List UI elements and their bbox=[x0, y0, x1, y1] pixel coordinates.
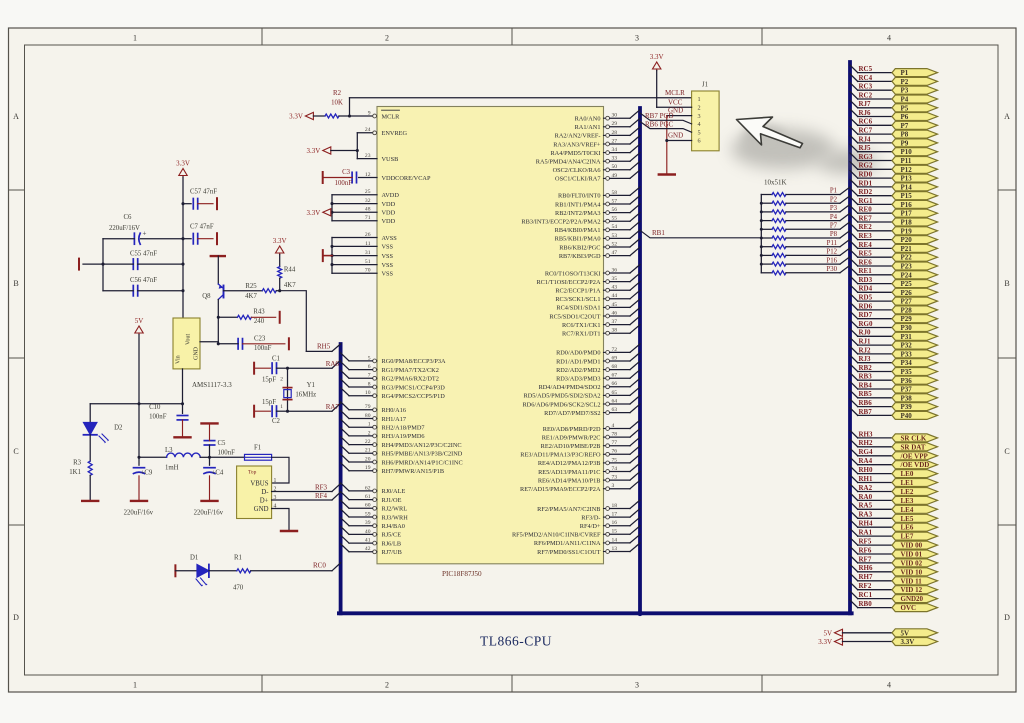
wire net RB1 bbox=[640, 230, 761, 238]
ground bar R3 bbox=[82, 500, 98, 502]
svg-text:5V: 5V bbox=[135, 317, 144, 325]
svg-text:VUSB: VUSB bbox=[382, 156, 399, 163]
port P6 (net RJ6) bbox=[850, 109, 938, 121]
pin 14 RF6/PMD1/AN11/C1INA bbox=[534, 534, 640, 547]
svg-text:RH2/A18/PMD7: RH2/A18/PMD7 bbox=[382, 425, 425, 432]
pin 75 RE4/AD12/PMA12/P3B bbox=[538, 454, 640, 467]
svg-text:P2: P2 bbox=[830, 196, 838, 203]
pin 28 RA2/AN2/VREF- bbox=[555, 127, 640, 140]
junction rail C56 bbox=[181, 289, 184, 292]
svg-text:P14: P14 bbox=[901, 183, 913, 191]
svg-text:3.3V: 3.3V bbox=[273, 237, 287, 245]
capacitor C1 bbox=[271, 363, 273, 373]
port LE6 (net RH4) bbox=[850, 520, 938, 532]
svg-text:RH6: RH6 bbox=[859, 564, 874, 572]
svg-text:RG1: RG1 bbox=[859, 197, 874, 205]
terminator C23 bbox=[288, 338, 290, 349]
junction left rail C55 bbox=[101, 263, 104, 266]
wire VDD pin stub y=212.3 bbox=[332, 211, 377, 213]
pin 32 VDD bbox=[365, 198, 396, 208]
pin 47 RB7/KBI3/PGD bbox=[559, 247, 640, 260]
ground bar C9 bbox=[131, 500, 147, 502]
svg-text:VSS: VSS bbox=[382, 244, 394, 251]
port LE0 (net RH0) bbox=[850, 466, 938, 478]
svg-text:RC6/TX1/CK1: RC6/TX1/CK1 bbox=[562, 322, 601, 329]
svg-text:RD4/AD4/PMD4/SDO2: RD4/AD4/PMD4/SDO2 bbox=[539, 384, 601, 391]
svg-text:P30: P30 bbox=[826, 266, 837, 273]
svg-text:D: D bbox=[13, 613, 19, 622]
pin 60 RJ2/WRL bbox=[341, 500, 408, 512]
resistor RN P3 bbox=[761, 204, 850, 214]
svg-text:3.3V: 3.3V bbox=[306, 209, 320, 217]
svg-text:RH0: RH0 bbox=[859, 466, 874, 474]
junction rail C55 bbox=[181, 263, 184, 266]
port P21 (net RE4) bbox=[850, 241, 938, 253]
wire Q8 emitter down bbox=[217, 300, 219, 344]
wire J1 pin3 GND bbox=[667, 115, 692, 117]
pin 63 RD7/AD7/PMD7/SS2 bbox=[544, 404, 640, 417]
wire VDD pin stub y=203.6 bbox=[332, 203, 377, 205]
pin 18 RF2/PMA5/AN7/C2INB bbox=[537, 500, 640, 513]
svg-text:2: 2 bbox=[280, 377, 283, 383]
svg-text:LE2: LE2 bbox=[901, 488, 914, 496]
pin 19 RH7/PMWR/AN15/P1B bbox=[341, 463, 445, 475]
resistor R1 bbox=[237, 569, 251, 573]
svg-text:37: 37 bbox=[612, 319, 618, 325]
svg-text:27: 27 bbox=[612, 138, 618, 144]
svg-text:RB2: RB2 bbox=[859, 364, 873, 372]
port LE2 (net RA2) bbox=[850, 484, 938, 496]
svg-text:58: 58 bbox=[612, 190, 618, 196]
svg-text:4: 4 bbox=[612, 423, 615, 429]
port P5 (net RJ7) bbox=[850, 100, 938, 112]
svg-text:54: 54 bbox=[612, 224, 618, 230]
svg-text:50: 50 bbox=[612, 164, 618, 170]
svg-text:RJ6/LB: RJ6/LB bbox=[382, 540, 402, 547]
svg-text:P35: P35 bbox=[901, 368, 913, 376]
svg-text:10K: 10K bbox=[331, 100, 343, 107]
pin 17 RF3/D- bbox=[581, 509, 640, 522]
svg-text:P34: P34 bbox=[901, 359, 913, 367]
capacitor C2 bbox=[271, 406, 273, 416]
resistor R2 bbox=[325, 114, 339, 118]
resistor RN P7 bbox=[761, 222, 850, 232]
svg-text:RF3/D-: RF3/D- bbox=[581, 514, 600, 521]
svg-text:TL866-CPU: TL866-CPU bbox=[480, 634, 552, 649]
svg-text:P1: P1 bbox=[901, 69, 909, 77]
port P15 (net RD2) bbox=[850, 188, 938, 200]
svg-text:220uF/16V: 220uF/16V bbox=[109, 225, 140, 232]
svg-text:RD0: RD0 bbox=[859, 171, 873, 179]
svg-text:RC5: RC5 bbox=[859, 65, 873, 73]
wire USB GND bbox=[272, 509, 289, 530]
svg-text:RG0/PMA8/ECCP3/P3A: RG0/PMA8/ECCP3/P3A bbox=[382, 358, 446, 365]
pin 34 RA4/PMD5/T0CKI bbox=[550, 144, 640, 157]
svg-text:R3: R3 bbox=[73, 460, 82, 467]
svg-text:P8: P8 bbox=[901, 131, 909, 139]
port 3.3V power bbox=[818, 638, 937, 647]
pin 20 RH6/PMRD/AN14/P1C/C1INC bbox=[341, 454, 463, 466]
wire Q8 collector bbox=[217, 256, 219, 284]
ground bar C5 bbox=[202, 422, 218, 424]
wire C55 right bbox=[138, 263, 183, 265]
wire net RA6 bbox=[288, 367, 333, 369]
junction RN rail P8 bbox=[760, 237, 763, 240]
svg-text:GND20: GND20 bbox=[901, 595, 924, 603]
wire net RH5 bbox=[306, 350, 332, 352]
svg-text:RB4: RB4 bbox=[859, 381, 873, 389]
port VID_00 (net RF5) bbox=[850, 538, 938, 550]
svg-text:OSC1/CLKI/RA7: OSC1/CLKI/RA7 bbox=[555, 176, 600, 183]
svg-text:3.3V: 3.3V bbox=[650, 53, 664, 61]
svg-text:LE0: LE0 bbox=[901, 470, 914, 478]
wire bus chip-right vertical bbox=[638, 108, 642, 613]
svg-text:RC6: RC6 bbox=[859, 118, 873, 126]
svg-text:P4: P4 bbox=[830, 214, 838, 221]
wire regulator Vin bbox=[182, 369, 184, 404]
svg-text:40: 40 bbox=[365, 529, 371, 535]
pin 56 RB2/INT2/PMA3 bbox=[555, 204, 640, 217]
capacitor C9 electrolytic bbox=[134, 467, 145, 469]
wire C2 left bbox=[254, 410, 270, 412]
pin 23 VUSB bbox=[365, 153, 398, 163]
wire C5 bottom bbox=[209, 445, 211, 465]
svg-text:15: 15 bbox=[612, 529, 618, 535]
svg-text:C7 47nF: C7 47nF bbox=[190, 224, 214, 231]
svg-text:RE6: RE6 bbox=[859, 258, 873, 266]
svg-text:VCC: VCC bbox=[668, 98, 683, 106]
svg-text:P9: P9 bbox=[901, 139, 909, 147]
svg-text:19: 19 bbox=[365, 465, 371, 471]
svg-text:1mH: 1mH bbox=[165, 465, 179, 472]
wire net RA7 bbox=[288, 410, 333, 412]
svg-text:4: 4 bbox=[887, 34, 891, 43]
svg-text:65: 65 bbox=[612, 390, 618, 396]
svg-text:RG1/PMA7/TX2/CK2: RG1/PMA7/TX2/CK2 bbox=[382, 367, 439, 374]
junction VSS rail bbox=[330, 245, 333, 248]
wire 5V to C9 bbox=[138, 457, 140, 465]
transistor Q8 bbox=[202, 284, 223, 300]
svg-text:RA3: RA3 bbox=[859, 511, 873, 519]
pin 73 RE6/AD14/PMA10/P1B bbox=[538, 472, 640, 485]
ground bar at VSS bbox=[322, 250, 324, 261]
port LE4 (net RA5) bbox=[850, 502, 938, 514]
pin 58 RB0/FLT0/INT0 bbox=[558, 187, 640, 200]
svg-text:RH3: RH3 bbox=[859, 430, 874, 438]
pin 41 RJ6/LB bbox=[341, 535, 402, 547]
svg-text:Vin: Vin bbox=[176, 355, 182, 364]
svg-text:RF2/PMA5/AN7/C2INB: RF2/PMA5/AN7/C2INB bbox=[537, 506, 600, 513]
wire USB D+ net RF4 bbox=[272, 499, 332, 501]
svg-text:RB7: RB7 bbox=[859, 408, 873, 416]
svg-text:P39: P39 bbox=[901, 403, 913, 411]
svg-text:1: 1 bbox=[133, 681, 137, 690]
svg-text:4: 4 bbox=[698, 121, 701, 128]
svg-text:P11: P11 bbox=[827, 240, 837, 247]
pin 52 RB6/KBI2/PGC bbox=[559, 239, 640, 252]
crystal Y1 bbox=[280, 377, 316, 411]
wire VUSB net bbox=[357, 158, 377, 160]
svg-text:RE3/AD11/PMA13/P3C/REFO: RE3/AD11/PMA13/P3C/REFO bbox=[520, 452, 601, 459]
wire C1 left bbox=[254, 367, 270, 369]
svg-text:PIC18F87J50: PIC18F87J50 bbox=[442, 570, 482, 578]
svg-text:F1: F1 bbox=[254, 445, 261, 452]
svg-text:P25: P25 bbox=[901, 280, 913, 288]
svg-text:63: 63 bbox=[612, 407, 618, 413]
svg-text:34: 34 bbox=[612, 147, 618, 153]
wire VSS pin stub y=264.6 bbox=[332, 264, 377, 266]
svg-text:3.3V: 3.3V bbox=[818, 638, 832, 646]
wire R43 left bbox=[218, 316, 237, 318]
svg-text:16MHz: 16MHz bbox=[295, 391, 316, 398]
port P40 (net RB7) bbox=[850, 408, 938, 420]
pin 70 VSS bbox=[365, 268, 394, 278]
svg-text:14: 14 bbox=[612, 537, 618, 543]
svg-text:33: 33 bbox=[612, 156, 618, 162]
svg-text:100nF: 100nF bbox=[149, 414, 167, 421]
wire net RB6 to J1 pin5 bbox=[640, 122, 692, 133]
svg-text:RA0: RA0 bbox=[859, 493, 873, 501]
pin 48 VDD bbox=[365, 207, 396, 217]
pin 46 RC5/SDO1/C2OUT bbox=[549, 308, 640, 321]
svg-text:80: 80 bbox=[365, 413, 371, 419]
svg-text:/OE VDD: /OE VDD bbox=[900, 461, 930, 469]
svg-text:RC1/T1OSI/ECCP2/P2A: RC1/T1OSI/ECCP2/P2A bbox=[536, 279, 600, 286]
svg-text:RF5/PMD2/AN10/C1INB/CVREF: RF5/PMD2/AN10/C1INB/CVREF bbox=[512, 532, 601, 539]
wire cap bank left rail bbox=[102, 239, 104, 291]
svg-text:56: 56 bbox=[612, 207, 618, 213]
port P35 (net RB2) bbox=[850, 364, 938, 376]
svg-text:43: 43 bbox=[612, 285, 618, 291]
wire C9 bottom bbox=[138, 476, 140, 500]
wire VDD rail vertical bbox=[331, 195, 333, 221]
wire ENVREG pin stub bbox=[357, 132, 372, 134]
junction J1 GND bbox=[665, 139, 668, 142]
svg-text:RH5: RH5 bbox=[317, 342, 331, 350]
ground symbol at J1 bbox=[659, 173, 675, 175]
svg-text:RB6 PGC: RB6 PGC bbox=[645, 121, 674, 129]
wire crystal vertical bbox=[287, 368, 289, 411]
svg-text:220uF/16v: 220uF/16v bbox=[194, 510, 224, 517]
svg-text:RB6/KBI2/PGC: RB6/KBI2/PGC bbox=[559, 244, 600, 251]
port GND20 (net RC1) bbox=[850, 591, 938, 603]
svg-text:D1: D1 bbox=[190, 555, 198, 562]
svg-text:RD0/AD0/PMD0: RD0/AD0/PMD0 bbox=[556, 350, 600, 357]
pin 5 RG0/PMA8/ECCP3/P3A bbox=[341, 353, 446, 365]
svg-text:A: A bbox=[13, 112, 19, 121]
svg-text:P26: P26 bbox=[901, 289, 913, 297]
wire node to F1 bbox=[210, 456, 245, 458]
svg-text:2: 2 bbox=[385, 681, 389, 690]
svg-text:LE7: LE7 bbox=[901, 533, 914, 541]
svg-text:3: 3 bbox=[635, 34, 639, 43]
svg-text:P16: P16 bbox=[826, 257, 837, 264]
wire C56 right bbox=[138, 290, 183, 292]
pin 77 RE2/AD10/PMBE/P2B bbox=[541, 437, 640, 450]
svg-text:RH6/PMRD/AN14/P1C/C1INC: RH6/PMRD/AN14/P1C/C1INC bbox=[382, 459, 463, 466]
svg-text:P28: P28 bbox=[901, 306, 913, 314]
svg-text:57: 57 bbox=[612, 198, 618, 204]
svg-text:RJ6: RJ6 bbox=[859, 109, 872, 117]
pin 74 RE5/AD13/PMA11/P1C bbox=[538, 463, 640, 476]
svg-text:RH7: RH7 bbox=[859, 573, 874, 581]
svg-text:RH7/PMWR/AN15/P1B: RH7/PMWR/AN15/P1B bbox=[382, 468, 445, 475]
wire 3.3V to J1 VCC bbox=[656, 71, 658, 108]
svg-text:VID 12: VID 12 bbox=[901, 586, 923, 594]
pin 21 RH5/PMBE/AN13/P3B/C2IND bbox=[341, 445, 463, 457]
port P39 (net RB6) bbox=[850, 399, 938, 411]
svg-text:P20: P20 bbox=[901, 236, 913, 244]
pin 24 ENVREG bbox=[365, 127, 408, 137]
wire Vout to node bbox=[200, 341, 218, 343]
capacitor C10 bbox=[182, 404, 184, 414]
svg-text:RJ4: RJ4 bbox=[859, 135, 872, 143]
svg-text:RE3: RE3 bbox=[859, 232, 873, 240]
resistor R44 bbox=[278, 267, 282, 279]
svg-text:VID 10: VID 10 bbox=[901, 568, 923, 576]
svg-text:RG4: RG4 bbox=[859, 448, 874, 456]
svg-text:1K1: 1K1 bbox=[69, 469, 81, 476]
pin 33 RA5/PMD4/AN4/C2INA bbox=[536, 153, 640, 166]
svg-text:RE4/AD12/PMA12/P3B: RE4/AD12/PMA12/P3B bbox=[538, 460, 601, 467]
capacitor C57 bbox=[183, 203, 191, 205]
svg-text:6: 6 bbox=[698, 138, 701, 145]
svg-text:21: 21 bbox=[365, 448, 371, 454]
svg-text:RC0: RC0 bbox=[313, 562, 326, 570]
svg-text:RJ1: RJ1 bbox=[859, 338, 872, 346]
svg-text:RE0/AD8/PMRD/P2D: RE0/AD8/PMRD/P2D bbox=[543, 426, 601, 433]
svg-text:R44: R44 bbox=[284, 267, 296, 274]
svg-text:+C9: +C9 bbox=[141, 470, 153, 477]
junction C5 node bbox=[208, 456, 211, 459]
svg-text:C10: C10 bbox=[149, 404, 161, 411]
LED D1 bbox=[190, 555, 209, 587]
svg-text:3: 3 bbox=[635, 681, 639, 690]
svg-text:73: 73 bbox=[612, 475, 618, 481]
svg-text:P7: P7 bbox=[830, 223, 838, 230]
svg-text:RD5: RD5 bbox=[859, 294, 873, 302]
pin 66 RD4/AD4/PMD4/SDO2 bbox=[539, 378, 640, 391]
svg-text:35: 35 bbox=[612, 276, 618, 282]
pin 12 VDDCORE/VCAP bbox=[365, 172, 431, 182]
svg-text:RD2: RD2 bbox=[859, 188, 873, 196]
svg-text:LE4: LE4 bbox=[901, 506, 914, 514]
pin 22 RH4/PMD3/AN12/P3C/C2INC bbox=[341, 437, 462, 449]
svg-text:LE5: LE5 bbox=[901, 515, 914, 523]
svg-text:13: 13 bbox=[612, 546, 618, 552]
svg-text:A: A bbox=[1004, 112, 1010, 121]
svg-text:RH5/PMBE/AN13/P3B/C2IND: RH5/PMBE/AN13/P3B/C2IND bbox=[382, 451, 463, 458]
junction VDD rail bbox=[330, 202, 333, 205]
pin 3 RE7/AD15/PMA9/ECCP2/P2A bbox=[520, 480, 640, 493]
wire R43 right bbox=[251, 316, 275, 318]
svg-text:OVC: OVC bbox=[901, 604, 917, 612]
terminator C7 bbox=[216, 233, 218, 244]
svg-text:D+: D+ bbox=[260, 497, 269, 504]
svg-text:RA5/PMD4/AN4/C2INA: RA5/PMD4/AN4/C2INA bbox=[536, 159, 601, 166]
svg-text:3.3V: 3.3V bbox=[306, 147, 320, 155]
wire R44 top bbox=[279, 255, 281, 267]
svg-text:P40: P40 bbox=[901, 412, 913, 420]
wire L3 to C5 node bbox=[200, 456, 209, 458]
svg-text:RE2: RE2 bbox=[859, 223, 873, 231]
svg-text:RD1: RD1 bbox=[859, 179, 873, 187]
resistor RN P11 bbox=[761, 239, 850, 249]
svg-text:RJ0/ALE: RJ0/ALE bbox=[382, 488, 406, 495]
svg-text:RF6: RF6 bbox=[859, 546, 872, 554]
svg-text:3.3V: 3.3V bbox=[901, 638, 915, 646]
svg-text:RH2: RH2 bbox=[859, 439, 874, 447]
junction C23 node bbox=[217, 342, 220, 345]
svg-text:VDDCORE/VCAP: VDDCORE/VCAP bbox=[382, 175, 431, 182]
svg-text:RD7/AD7/PMD7/SS2: RD7/AD7/PMD7/SS2 bbox=[544, 410, 600, 417]
resistor RN P30 bbox=[761, 265, 850, 275]
resistor R3 bbox=[88, 461, 92, 475]
port P26 (net RD4) bbox=[850, 285, 938, 297]
capacitor C5 bbox=[204, 440, 214, 442]
svg-text:VSS: VSS bbox=[382, 253, 394, 260]
svg-text:P12: P12 bbox=[826, 249, 837, 256]
pin 11 VSS bbox=[365, 241, 393, 251]
junction RN rail P16 bbox=[760, 263, 763, 266]
terminator C55 bbox=[78, 259, 80, 270]
junction R25 R44 bbox=[278, 289, 281, 292]
port P27 (net RD5) bbox=[850, 294, 938, 306]
svg-text:P2: P2 bbox=[901, 78, 909, 86]
svg-text:RF4/D+: RF4/D+ bbox=[580, 523, 601, 530]
svg-text:RC2/ECCP1/P1A: RC2/ECCP1/P1A bbox=[555, 288, 601, 295]
resistor RN P12 bbox=[761, 248, 850, 258]
wire 3.3V to R2 bbox=[313, 115, 325, 117]
svg-text:RC4/SDI1/SDA1: RC4/SDI1/SDA1 bbox=[556, 305, 600, 312]
svg-text:RD3/AD3/PMD3: RD3/AD3/PMD3 bbox=[556, 376, 600, 383]
pin 45 RC4/SDI1/SDA1 bbox=[556, 299, 640, 312]
junction RN rail P12 bbox=[760, 254, 763, 257]
port P1 (net RC5) bbox=[850, 65, 938, 77]
svg-text:66: 66 bbox=[612, 381, 618, 387]
port VID_01 (net RF6) bbox=[850, 546, 938, 558]
svg-text:RJ2: RJ2 bbox=[859, 346, 872, 354]
svg-text:P29: P29 bbox=[901, 315, 913, 323]
svg-text:ENVREG: ENVREG bbox=[382, 130, 408, 137]
pin 29 RA1/AN1 bbox=[575, 118, 640, 131]
wire MCLR net vertical bbox=[349, 98, 351, 116]
svg-text:RJ5: RJ5 bbox=[859, 144, 872, 152]
svg-text:RG2/PMA6/RX2/DT2: RG2/PMA6/RX2/DT2 bbox=[382, 376, 439, 383]
wire R2 to MCLR pin bbox=[339, 115, 350, 117]
svg-text:J1: J1 bbox=[702, 82, 708, 89]
port P22 (net RE5) bbox=[850, 250, 938, 262]
svg-text:RA3/AN3/VREF+: RA3/AN3/VREF+ bbox=[553, 141, 601, 148]
svg-text:RF2: RF2 bbox=[859, 582, 872, 590]
svg-text:100nF: 100nF bbox=[335, 180, 353, 187]
ground bar USB bbox=[281, 530, 297, 532]
port SR_DAT (net RH2) bbox=[850, 439, 938, 451]
pin 36 RC0/T1OSO/T13CKI bbox=[545, 265, 640, 278]
pin 13 RF7/PMD0/SS1/C1OUT bbox=[537, 543, 640, 556]
svg-text:RC2: RC2 bbox=[859, 91, 873, 99]
pin 43 RC2/ECCP1/P1A bbox=[555, 282, 640, 295]
wire R25 to node bbox=[276, 290, 279, 292]
port VID_10 (net RH6) bbox=[850, 564, 938, 576]
wire VSS pin stub y=246.4 bbox=[332, 245, 377, 247]
svg-text:C5: C5 bbox=[218, 440, 227, 447]
capacitor C23 bbox=[237, 339, 239, 349]
svg-text:72: 72 bbox=[612, 347, 618, 353]
svg-text:53: 53 bbox=[612, 233, 618, 239]
port P19 (net RE2) bbox=[850, 223, 938, 235]
svg-text:VDD: VDD bbox=[382, 210, 396, 217]
